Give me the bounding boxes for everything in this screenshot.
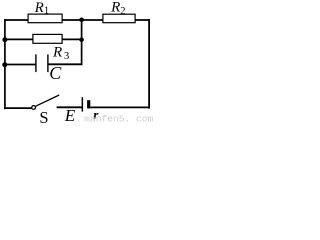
wire xyxy=(4,107,32,109)
wire xyxy=(4,19,6,109)
label C xyxy=(49,63,62,83)
wire xyxy=(4,64,35,66)
svg-text:R: R xyxy=(110,0,120,16)
label E xyxy=(64,106,76,125)
wire xyxy=(4,19,150,21)
svg-text:R: R xyxy=(52,44,62,60)
node junction left R3 xyxy=(2,37,7,42)
svg-text:S: S xyxy=(39,108,48,124)
capacitor C xyxy=(35,54,48,72)
svg-text:R: R xyxy=(34,0,44,16)
switch S xyxy=(32,95,60,109)
node junction top xyxy=(79,18,84,23)
battery E xyxy=(82,97,91,111)
label R1 xyxy=(34,0,50,16)
wire xyxy=(62,38,82,40)
wire xyxy=(57,106,82,108)
svg-text:2: 2 xyxy=(120,6,125,17)
node junction left C xyxy=(2,62,7,67)
label r xyxy=(93,107,99,122)
svg-text:3: 3 xyxy=(64,51,69,62)
wire xyxy=(48,63,82,65)
label R3 xyxy=(52,44,69,61)
watermark xyxy=(84,114,153,125)
wire xyxy=(81,19,83,65)
label S xyxy=(39,108,48,127)
node junction R3 xyxy=(79,37,84,42)
resistor R3 xyxy=(33,34,62,43)
label R2 xyxy=(110,0,125,17)
wire xyxy=(4,38,33,40)
svg-text:C: C xyxy=(49,63,62,83)
svg-text:manfen5. com: manfen5. com xyxy=(84,114,153,124)
wire xyxy=(148,19,150,109)
wire xyxy=(90,106,150,108)
svg-text:E: E xyxy=(64,106,76,124)
resistor R1 xyxy=(28,14,62,23)
svg-text:1: 1 xyxy=(44,5,49,16)
resistor R2 xyxy=(103,14,135,23)
